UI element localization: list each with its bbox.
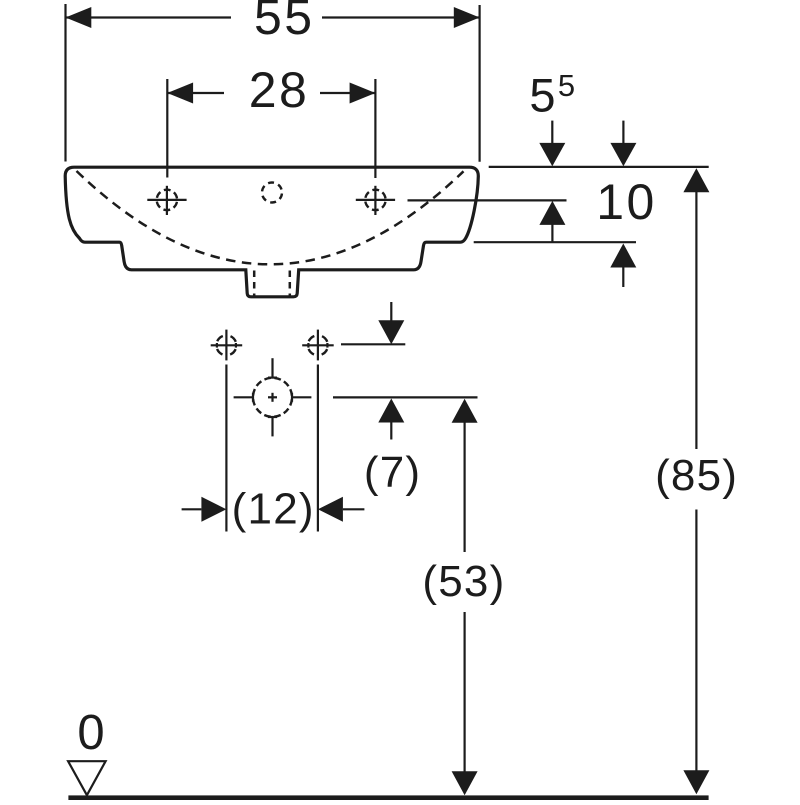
arrowhead 28 left: [167, 83, 193, 104]
tap hole center reference line: [408, 199, 567, 201]
svg-text:(53): (53): [422, 557, 505, 606]
extension line right of 55 dim: [479, 5, 481, 162]
right tap hole symbol: [356, 186, 395, 215]
basin outline: [65, 167, 478, 297]
drain center reference line: [333, 396, 478, 398]
dimension line 28 right segment: [320, 92, 375, 94]
arrowhead 28 right: [350, 83, 376, 104]
floor line: [68, 795, 708, 800]
overflow dashed circle: [262, 183, 282, 203]
svg-text:5: 5: [529, 69, 555, 122]
10 dim down arrow: [622, 121, 624, 144]
right anchor hole symbol: [302, 330, 334, 361]
dimension line 55 left segment: [66, 16, 232, 18]
extension line left of 55 dim: [64, 4, 66, 162]
dimension line 55 right segment: [322, 16, 480, 18]
left anchor hole symbol: [211, 330, 243, 361]
(53) dimension line lower: [464, 612, 466, 773]
svg-text:(12): (12): [232, 485, 315, 534]
(12) dim right arrow: [318, 497, 343, 522]
anchor hole extension line left: [225, 365, 227, 532]
(12) dim left arrow: [182, 508, 202, 510]
basin top reference line: [489, 166, 709, 168]
anchor hole extension line right: [317, 365, 319, 532]
drain hole symbol: [234, 358, 312, 436]
(53) dimension line upper: [452, 399, 478, 423]
dimension line 28 left segment: [167, 92, 224, 94]
svg-text:(7): (7): [364, 448, 421, 497]
svg-text:0: 0: [77, 706, 104, 760]
svg-text:55: 55: [254, 0, 315, 45]
(7) down arrow: [390, 302, 392, 321]
svg-text:28: 28: [249, 62, 310, 118]
(7) reference line top: [341, 343, 405, 345]
hidden bowl edge dashed arc: [77, 171, 464, 264]
svg-text:10: 10: [596, 174, 657, 230]
extension line left of 28 dim: [166, 79, 168, 178]
extension line right of 28 dim: [374, 79, 376, 178]
5.5 dim up arrow: [539, 201, 565, 225]
5.5 dim down arrow: [551, 121, 553, 144]
(85) dimension line upper: [683, 168, 709, 192]
drain stub hidden pipe dashed lines: [253, 271, 256, 296]
(7) up arrow: [378, 399, 404, 423]
svg-text:5: 5: [558, 68, 575, 103]
left tap hole symbol: [147, 186, 186, 215]
rim bottom reference line: [474, 241, 636, 243]
svg-text:(85): (85): [655, 451, 738, 500]
arrowhead 55 right: [454, 7, 480, 28]
arrowhead 55 left: [66, 7, 92, 28]
datum triangle: [68, 761, 106, 795]
(85) dimension line lower: [695, 510, 697, 771]
10 dim up arrow: [610, 244, 636, 268]
